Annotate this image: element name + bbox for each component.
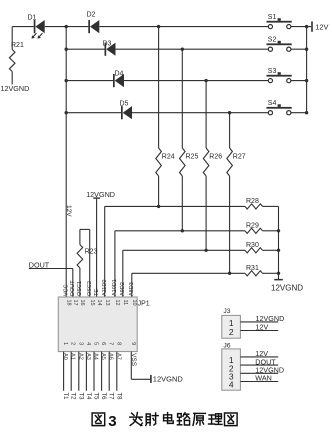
svg-text:16: 16 bbox=[79, 300, 85, 306]
svg-text:A8D3: A8D3 bbox=[129, 282, 135, 296]
svg-text:A0: A0 bbox=[62, 353, 68, 360]
svg-text:S1: S1 bbox=[268, 14, 277, 21]
svg-text:R23: R23 bbox=[85, 249, 98, 256]
svg-text:S4: S4 bbox=[268, 100, 277, 107]
svg-text:OSC2: OSC2 bbox=[87, 281, 93, 296]
svg-text:R30: R30 bbox=[246, 242, 259, 249]
svg-text:12VGND: 12VGND bbox=[256, 314, 285, 323]
svg-text:OSC1: OSC1 bbox=[77, 281, 83, 296]
svg-text:D1: D1 bbox=[28, 15, 37, 22]
svg-text:S3: S3 bbox=[268, 68, 277, 75]
svg-text:A10D1: A10D1 bbox=[112, 279, 118, 296]
svg-text:T8: T8 bbox=[115, 393, 121, 401]
svg-text:J3: J3 bbox=[223, 308, 230, 315]
svg-text:12V: 12V bbox=[315, 23, 328, 32]
svg-text:12VGND: 12VGND bbox=[153, 374, 184, 383]
svg-text:D5: D5 bbox=[120, 101, 129, 108]
svg-text:A7: A7 bbox=[115, 353, 121, 360]
svg-text:11: 11 bbox=[122, 300, 128, 306]
svg-text:7: 7 bbox=[108, 342, 114, 345]
svg-text:T2: T2 bbox=[70, 393, 76, 401]
svg-text:A4: A4 bbox=[93, 353, 99, 360]
svg-text:12VGND: 12VGND bbox=[86, 190, 115, 199]
svg-text:TE: TE bbox=[94, 289, 100, 296]
svg-text:17: 17 bbox=[72, 300, 78, 306]
svg-text:T3: T3 bbox=[77, 393, 83, 401]
svg-text:R31: R31 bbox=[246, 265, 259, 272]
svg-text:T6: T6 bbox=[100, 393, 106, 401]
svg-text:R28: R28 bbox=[246, 198, 259, 205]
svg-text:A9D2: A9D2 bbox=[120, 282, 126, 296]
svg-text:2: 2 bbox=[229, 327, 234, 337]
svg-text:J6: J6 bbox=[223, 342, 230, 349]
svg-text:A2: A2 bbox=[77, 353, 83, 360]
svg-text:10: 10 bbox=[131, 300, 137, 306]
svg-text:12VGND: 12VGND bbox=[1, 84, 30, 93]
svg-text:14: 14 bbox=[96, 300, 102, 306]
svg-text:13: 13 bbox=[104, 300, 110, 306]
svg-text:A1: A1 bbox=[70, 353, 76, 360]
svg-text:R29: R29 bbox=[246, 223, 259, 230]
svg-text:T1: T1 bbox=[62, 393, 68, 401]
svg-text:R27: R27 bbox=[233, 154, 246, 161]
svg-text:9: 9 bbox=[130, 342, 136, 345]
svg-text:T5: T5 bbox=[93, 393, 99, 401]
svg-text:R24: R24 bbox=[162, 154, 175, 161]
svg-text:A11D0: A11D0 bbox=[102, 280, 108, 296]
svg-text:R25: R25 bbox=[186, 154, 199, 161]
svg-text:6: 6 bbox=[100, 342, 106, 345]
svg-text:12VGND: 12VGND bbox=[271, 283, 303, 292]
svg-text:18: 18 bbox=[65, 300, 71, 306]
svg-text:T7: T7 bbox=[108, 393, 114, 401]
svg-text:JP1: JP1 bbox=[138, 301, 150, 308]
svg-text:R21: R21 bbox=[11, 42, 24, 49]
svg-text:D2: D2 bbox=[87, 12, 96, 19]
svg-text:VCC: VCC bbox=[63, 284, 69, 296]
svg-text:12: 12 bbox=[114, 300, 120, 306]
svg-text:8: 8 bbox=[115, 342, 121, 345]
svg-text:15: 15 bbox=[89, 300, 95, 306]
svg-text:DOUT: DOUT bbox=[70, 280, 76, 296]
svg-text:4: 4 bbox=[85, 342, 91, 345]
svg-text:A6: A6 bbox=[108, 353, 114, 360]
svg-text:S2: S2 bbox=[268, 36, 277, 43]
svg-text:VSS: VSS bbox=[130, 353, 137, 367]
svg-text:T4: T4 bbox=[85, 393, 91, 401]
svg-text:WAN: WAN bbox=[255, 374, 272, 383]
svg-text:2: 2 bbox=[70, 342, 76, 345]
svg-text:5: 5 bbox=[93, 342, 99, 345]
svg-text:1: 1 bbox=[62, 342, 68, 345]
svg-text:D4: D4 bbox=[115, 71, 124, 78]
svg-text:12V: 12V bbox=[256, 323, 269, 332]
svg-text:4: 4 bbox=[229, 380, 234, 390]
svg-text:A3: A3 bbox=[85, 353, 91, 360]
svg-text:A5: A5 bbox=[100, 353, 106, 360]
svg-text:12V: 12V bbox=[65, 205, 72, 217]
svg-text:3: 3 bbox=[77, 342, 83, 345]
svg-text:D3: D3 bbox=[103, 41, 112, 48]
svg-text:3: 3 bbox=[108, 413, 116, 430]
svg-text:R26: R26 bbox=[209, 154, 222, 161]
